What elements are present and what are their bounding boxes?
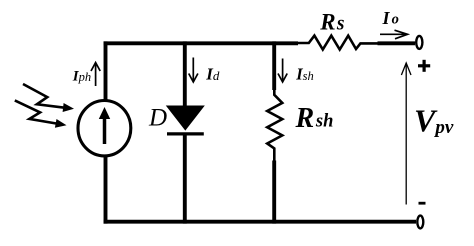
- wire Rsh branch lower (Rsh to bottom bus): [272, 161, 276, 224]
- arrow Id (diode current down): [189, 58, 198, 83]
- wire Rsh branch upper (top bus to Rsh): [272, 41, 276, 90]
- arrow Ish (shunt current down): [278, 59, 287, 83]
- wire bottom bus (negative rail): [104, 220, 416, 224]
- label plus: [418, 60, 430, 72]
- current source Iph (photocurrent source): [78, 101, 131, 156]
- svg-text:Iph: Iph: [72, 69, 91, 85]
- wire diode branch lower (diode cathode to bottom bus): [183, 134, 187, 224]
- svg-text:Id: Id: [205, 64, 220, 83]
- wire output top (Rs to positive terminal): [378, 41, 416, 45]
- diode D cathode bar: [167, 132, 204, 135]
- label minus: [419, 202, 426, 205]
- light ray arrow 1 (upper illumination arrow): [23, 84, 65, 108]
- terminal negative (output - terminal): [417, 216, 423, 229]
- wire diode branch upper (top bus to diode anode): [183, 41, 187, 107]
- diode D (anode triangle): [167, 106, 204, 130]
- svg-text:D: D: [148, 104, 167, 131]
- terminal positive (output + terminal): [416, 36, 422, 49]
- wire left branch lower (current source to bottom bus): [104, 156, 108, 224]
- wire left branch upper (top bus to current source): [104, 41, 108, 100]
- arrow Iph (current direction up): [91, 63, 100, 87]
- light ray arrow 2 (lower illumination arrow): [15, 100, 57, 123]
- resistor Rsh (shunt resistor zigzag): [267, 90, 282, 162]
- arrow Io (output current right): [380, 30, 408, 39]
- arrow Vpv (voltage measurement arrow up): [401, 63, 411, 205]
- svg-text:Rs: Rs: [319, 10, 344, 35]
- wire top bus (node between Iph, D, Rsh, Rs): [104, 41, 298, 45]
- resistor Rs (series resistor zigzag): [298, 36, 378, 50]
